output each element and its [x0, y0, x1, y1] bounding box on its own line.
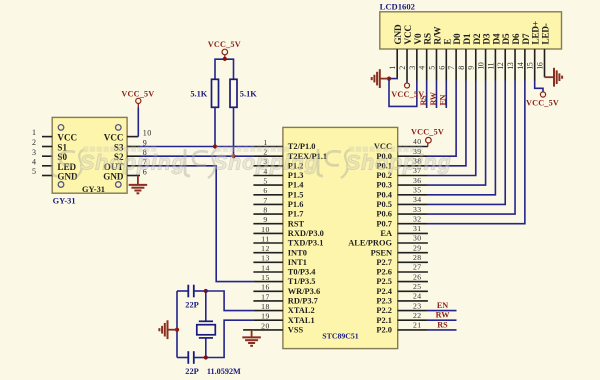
svg-text:11.0592M: 11.0592M — [207, 367, 241, 376]
svg-text:VCC_5V: VCC_5V — [411, 127, 444, 136]
LCD pin 1 (GND) — [388, 24, 404, 77]
GY-31 pin 6 (GND) — [103, 167, 147, 181]
ground at U1 VSS — [242, 330, 261, 346]
U1 pin 39 (P0.0) — [376, 147, 427, 161]
svg-text:XTAL2: XTAL2 — [288, 306, 315, 315]
LCD pin 14 (D7) — [516, 33, 532, 80]
wire net P0.4/D4 (U1 pin 35 to LCD pin 11) — [428, 81, 496, 195]
U1 pin 28 (P2.7) — [376, 253, 427, 267]
svg-text:RST: RST — [288, 219, 305, 228]
wire LCD V0 to GND net — [389, 79, 417, 107]
U1 pin 8 (P1.7) — [253, 206, 303, 219]
U1 pin 40 (VCC) — [374, 137, 428, 151]
power VCC_5V at LCD pin15 — [526, 92, 559, 108]
U1 pin 20 (VSS) — [253, 321, 303, 334]
U1 pin 4 (P1.3) — [253, 167, 303, 180]
LCD pin 5 (R/W) — [427, 26, 443, 81]
svg-text:RS: RS — [424, 33, 434, 44]
U1 pin 21 (P2.0) — [376, 321, 427, 335]
GY-31 pin 5 (GND) — [32, 167, 78, 181]
junction R2/S2 — [231, 154, 235, 158]
svg-text:ALE/PROG: ALE/PROG — [348, 239, 392, 248]
svg-text:12: 12 — [496, 62, 505, 70]
svg-text:EN: EN — [439, 94, 448, 105]
wire U1 pin 20 VSS — [243, 329, 253, 331]
power VCC_5V above resistors — [208, 40, 241, 59]
svg-text:D5: D5 — [502, 33, 512, 44]
svg-text:D1: D1 — [463, 33, 473, 44]
wire net P0.1/D1 (U1 pin 38 to LCD pin 8) — [428, 81, 466, 166]
GY-31 pin 9 (S3) — [114, 138, 147, 152]
LCD pin 9 (D2) — [467, 33, 483, 80]
wire R2 to net S2 — [233, 107, 235, 156]
svg-text:24: 24 — [413, 292, 422, 301]
svg-text:16: 16 — [536, 62, 545, 70]
svg-text:32: 32 — [413, 214, 422, 223]
svg-text:3: 3 — [408, 66, 417, 70]
U1 pin 19 (XTAL1) — [253, 312, 314, 325]
wire net RS at LCD pin4 — [419, 81, 428, 109]
wire LCD pin1 GND down — [389, 77, 397, 79]
wire net P0.6/D6 (U1 pin 33 to LCD pin 13) — [428, 81, 515, 215]
svg-text:26: 26 — [413, 272, 422, 281]
GY-31 pin 10 (VCC) — [104, 129, 152, 143]
U1 pin 18 (XTAL2) — [253, 302, 314, 315]
svg-text:INT1: INT1 — [288, 258, 307, 267]
GY-31 pin 4 (LED) — [32, 157, 77, 171]
svg-text:10: 10 — [261, 225, 270, 234]
U1 pin 26 (P2.5) — [376, 272, 427, 286]
svg-text:VCC: VCC — [404, 25, 414, 45]
connector LCD1602 box — [380, 12, 562, 49]
wire net P0.2/D2 (U1 pin 37 to LCD pin 9) — [428, 81, 476, 176]
svg-text:3: 3 — [32, 148, 36, 157]
U1 pin 36 (P0.3) — [376, 176, 427, 190]
capacitor C2 22P — [177, 351, 206, 376]
svg-text:P1.6: P1.6 — [288, 200, 304, 209]
svg-text:VCC_5V: VCC_5V — [121, 89, 154, 98]
U1 pin 30 (ALE/PROG) — [348, 234, 428, 248]
svg-text:P2.3: P2.3 — [376, 297, 392, 306]
svg-text:19: 19 — [261, 312, 270, 321]
wire XTAL1 net to U1 pin 19 — [206, 320, 254, 357]
wire net RW at LCD pin5 — [429, 81, 438, 109]
U1 pin 33 (P0.6) — [376, 205, 427, 219]
junction at resistor tee — [223, 57, 227, 61]
wire net RS (U1 pin 21) — [428, 320, 457, 330]
svg-text:14: 14 — [516, 62, 525, 70]
svg-text:33: 33 — [413, 205, 422, 214]
U1 pin 31 (EA) — [380, 224, 428, 238]
wire GY-31 pin10 to VCC_5V — [137, 108, 139, 137]
svg-text:28: 28 — [413, 253, 422, 262]
svg-text:34: 34 — [413, 195, 422, 204]
wire R1 to net S3 — [214, 107, 216, 146]
svg-text:5.1K: 5.1K — [240, 89, 257, 98]
svg-text:P2.0: P2.0 — [376, 326, 392, 335]
svg-text:P1.4: P1.4 — [288, 181, 304, 190]
resistor R1 5.1K — [190, 79, 218, 107]
GY-31 pin 1 (VCC) — [32, 128, 77, 142]
ground at crystal — [159, 320, 177, 339]
U1 pin 11 (TXD/P3.1) — [253, 234, 323, 247]
LCD pin 2 (VCC) — [398, 25, 414, 81]
U1 pin 3 (P1.2) — [253, 157, 303, 170]
svg-text:1: 1 — [32, 128, 36, 137]
svg-text:PSEN: PSEN — [371, 248, 392, 257]
svg-text:15: 15 — [526, 62, 535, 70]
GY-31 pin 7 (OUT) — [104, 158, 148, 172]
svg-text:D2: D2 — [473, 33, 483, 44]
wire XTAL2 net to U1 pin 18 — [206, 291, 254, 311]
svg-text:TXD/P3.1: TXD/P3.1 — [288, 239, 324, 248]
svg-text:20: 20 — [261, 321, 270, 330]
svg-text:15: 15 — [261, 273, 270, 282]
U1 pin 22 (P2.1) — [376, 311, 427, 325]
U1 pin 16 (WR/P3.6) — [253, 283, 320, 296]
power VCC_5V at LCD pin2 — [391, 81, 424, 99]
svg-text:RS: RS — [437, 320, 448, 329]
svg-text:VCC: VCC — [104, 133, 124, 143]
svg-text:P0.6: P0.6 — [376, 210, 392, 219]
GY-31 pin 3 (S0) — [32, 148, 67, 162]
U1 pin 9 (RST) — [253, 215, 304, 228]
power VCC_5V at GY-31 pin 10 — [121, 89, 154, 107]
GY-31 pin 2 (S1) — [32, 138, 67, 152]
svg-text:T1/P3.5: T1/P3.5 — [288, 277, 316, 286]
U1 pin 2 (T2EX/P1.1) — [253, 148, 327, 161]
label LCD1602 — [380, 1, 415, 11]
svg-text:16: 16 — [261, 283, 270, 292]
U1 pin 12 (INT0) — [253, 244, 306, 257]
LCD pin 8 (D1) — [457, 33, 473, 80]
svg-text:18: 18 — [261, 302, 270, 311]
svg-text:25: 25 — [413, 282, 422, 291]
svg-text:8: 8 — [263, 206, 267, 215]
svg-text:P2.4: P2.4 — [376, 287, 392, 296]
IC U1 STC89C51 box — [283, 127, 398, 348]
svg-text:RXD/P3.0: RXD/P3.0 — [288, 229, 324, 238]
svg-text:13: 13 — [506, 62, 515, 70]
svg-text:R/W: R/W — [433, 26, 443, 45]
svg-text:8: 8 — [457, 66, 466, 70]
svg-text:22: 22 — [413, 311, 422, 320]
label GY-31 — [53, 197, 76, 206]
U1 pin 6 (P1.5) — [253, 186, 303, 199]
LCD pin 3 (V0) — [408, 33, 424, 80]
svg-text:13: 13 — [261, 254, 270, 263]
wire net EN at LCD pin6 — [439, 81, 448, 109]
svg-text:P0.7: P0.7 — [376, 219, 392, 228]
svg-text:31: 31 — [413, 224, 422, 233]
svg-text:P2.2: P2.2 — [376, 306, 392, 315]
svg-text:LED-: LED- — [542, 23, 552, 44]
svg-text:GY-31: GY-31 — [53, 197, 76, 206]
svg-text:14: 14 — [261, 263, 270, 272]
svg-text:40: 40 — [413, 137, 422, 146]
IC U2 GY-31 color sensor box — [52, 117, 127, 194]
svg-text:1: 1 — [263, 138, 267, 147]
U1 pin 15 (T1/P3.5) — [253, 273, 315, 286]
svg-text:12: 12 — [261, 244, 270, 253]
U1 pin 29 (PSEN) — [371, 243, 428, 257]
LCD pin 7 (D0) — [447, 33, 463, 80]
wire net P0.0/D0 (U1 pin 39 to LCD pin 7) — [428, 81, 456, 157]
U1 pin 34 (P0.5) — [376, 195, 427, 209]
svg-text:LCD1602: LCD1602 — [380, 1, 415, 11]
U1 pin 25 (P2.4) — [376, 282, 427, 296]
svg-text:T0/P3.4: T0/P3.4 — [288, 268, 316, 277]
svg-text:LED+: LED+ — [532, 21, 542, 44]
svg-text:21: 21 — [413, 321, 422, 330]
U1 pin 23 (P2.2) — [376, 301, 427, 315]
junction XTAL1 net — [204, 355, 208, 359]
svg-text:P2.1: P2.1 — [376, 316, 392, 325]
U1 pin 24 (P2.3) — [376, 292, 427, 306]
watermark — [52, 146, 452, 178]
svg-text:GND: GND — [57, 172, 78, 182]
svg-text:5: 5 — [427, 66, 436, 70]
svg-text:D3: D3 — [483, 33, 493, 44]
svg-text:V0: V0 — [414, 33, 424, 44]
svg-text:P2.6: P2.6 — [376, 268, 392, 277]
wire crystal left branch — [176, 291, 178, 358]
svg-text:P0.3: P0.3 — [376, 181, 392, 190]
svg-text:VSS: VSS — [288, 326, 304, 335]
LCD pin 12 (D5) — [496, 33, 512, 80]
U1 pin 35 (P0.4) — [376, 186, 427, 200]
wire net P0.3/D3 (U1 pin 36 to LCD pin 10) — [428, 81, 486, 186]
svg-text:GND: GND — [394, 24, 404, 44]
LCD pin 13 (D6) — [506, 33, 522, 80]
U1 pin 10 (RXD/P3.0) — [253, 225, 323, 238]
wire net P0.5/D5 (U1 pin 34 to LCD pin 12) — [428, 81, 505, 205]
LCD pin 4 (RS) — [418, 33, 434, 80]
svg-text:E: E — [443, 39, 453, 45]
svg-text:RS: RS — [419, 95, 428, 106]
svg-text:11: 11 — [486, 62, 495, 69]
svg-text:EN: EN — [437, 301, 448, 310]
svg-text:23: 23 — [413, 301, 422, 310]
svg-text:D6: D6 — [512, 33, 522, 44]
U1 pin 1 (T2/P1.0) — [253, 138, 315, 151]
svg-text:35: 35 — [413, 186, 422, 195]
svg-text:STC89C51: STC89C51 — [322, 332, 358, 341]
LCD pin 6 (E) — [437, 39, 453, 81]
LCD pin 16 (LED-) — [536, 23, 552, 77]
capacitor C1 22P — [177, 285, 206, 310]
svg-text:RD/P3.7: RD/P3.7 — [288, 297, 318, 306]
svg-text:1: 1 — [388, 66, 397, 70]
svg-text:22P: 22P — [185, 367, 199, 376]
svg-text:17: 17 — [261, 292, 270, 301]
U1 pin 38 (P0.1) — [376, 157, 427, 171]
svg-text:22P: 22P — [185, 300, 199, 309]
svg-text:36: 36 — [413, 176, 422, 185]
svg-text:2: 2 — [32, 138, 36, 147]
wire LCD pin15 LED+ to VCC — [535, 81, 543, 92]
svg-text:RW: RW — [436, 311, 451, 320]
svg-text:11: 11 — [261, 234, 269, 243]
wire net EN (U1 pin 23) — [428, 301, 457, 311]
svg-text:Shopping: Shopping — [80, 150, 186, 174]
U1 pin 37 (P0.2) — [376, 166, 427, 180]
svg-text:7: 7 — [447, 66, 456, 70]
U1 pin 14 (T0/P3.4) — [253, 263, 316, 276]
svg-text:EA: EA — [380, 229, 392, 238]
resistor R2 5.1K — [230, 79, 257, 107]
U1 pin 32 (P0.7) — [376, 214, 427, 228]
ground at LCD pin16 — [545, 68, 563, 87]
junction crystal ground — [175, 328, 179, 332]
ground at GY-31 pin 6 — [129, 176, 148, 194]
svg-text:Shopping: Shopping — [346, 150, 452, 174]
svg-text:6: 6 — [437, 66, 446, 70]
junction R1/S3 — [213, 144, 217, 148]
U1 pin 27 (P2.6) — [376, 263, 427, 277]
svg-text:4: 4 — [32, 157, 36, 166]
svg-text:D0: D0 — [453, 33, 463, 44]
svg-text:INT0: INT0 — [288, 248, 307, 257]
svg-text:P1.5: P1.5 — [288, 190, 304, 199]
wire resistor top tee — [215, 59, 234, 79]
svg-text:VCC_5V: VCC_5V — [208, 40, 241, 49]
svg-text:D7: D7 — [522, 33, 532, 44]
svg-text:10: 10 — [143, 129, 152, 138]
svg-text:29: 29 — [413, 243, 422, 252]
svg-text:Shopping: Shopping — [213, 150, 319, 174]
svg-text:WR/P3.6: WR/P3.6 — [288, 287, 320, 296]
wire net S3 (GY-31 pin9 to U1 pin1) — [140, 146, 253, 148]
LCD pin 10 (D3) — [477, 33, 493, 80]
svg-text:RW: RW — [429, 91, 438, 105]
svg-text:9: 9 — [263, 215, 267, 224]
svg-text:7: 7 — [263, 196, 267, 205]
svg-text:5.1K: 5.1K — [190, 89, 207, 98]
svg-text:5: 5 — [32, 167, 36, 176]
svg-text:XTAL1: XTAL1 — [288, 316, 315, 325]
junction XTAL2 net — [204, 289, 208, 293]
U1 pin 7 (P1.6) — [253, 196, 303, 209]
power VCC_5V at U1 pin 40 — [411, 127, 444, 146]
junction LCD GND — [387, 77, 391, 81]
U1 pin 5 (P1.4) — [253, 177, 304, 190]
wire net P0.7/D7 (U1 pin 32 to LCD pin 14) — [428, 81, 525, 224]
svg-text:VCC: VCC — [57, 133, 77, 143]
U1 pin 13 (INT1) — [253, 254, 306, 267]
svg-text:2: 2 — [398, 66, 407, 70]
svg-text:GY-31: GY-31 — [82, 185, 105, 194]
svg-text:5: 5 — [263, 177, 267, 186]
svg-text:9: 9 — [467, 66, 476, 70]
svg-text:30: 30 — [413, 234, 422, 243]
svg-text:P0.5: P0.5 — [376, 200, 392, 209]
svg-text:D4: D4 — [492, 33, 502, 44]
U1 pin 17 (RD/P3.7) — [253, 292, 317, 305]
wire net OUT (GY-31 pin7 to U1 pin15) — [140, 166, 253, 282]
crystal Y1 11.0592M — [197, 291, 241, 376]
GY-31 pin 8 (S2) — [114, 148, 147, 162]
svg-text:P0.4: P0.4 — [376, 190, 392, 199]
svg-text:P1.7: P1.7 — [288, 210, 304, 219]
svg-text:P2.5: P2.5 — [376, 277, 392, 286]
LCD pin 15 (LED+) — [526, 21, 542, 80]
svg-text:P2.7: P2.7 — [376, 258, 392, 267]
svg-text:27: 27 — [413, 263, 422, 272]
LCD pin 11 (D4) — [486, 33, 502, 80]
svg-text:6: 6 — [263, 186, 267, 195]
svg-text:VCC_5V: VCC_5V — [526, 98, 559, 107]
svg-text:4: 4 — [418, 66, 427, 70]
wire net S2 (GY-31 pin8 to U1 pin2) — [140, 155, 253, 157]
ground at LCD pin1 — [372, 69, 390, 88]
wire net RW (U1 pin 22) — [428, 311, 457, 321]
svg-text:10: 10 — [477, 62, 486, 70]
